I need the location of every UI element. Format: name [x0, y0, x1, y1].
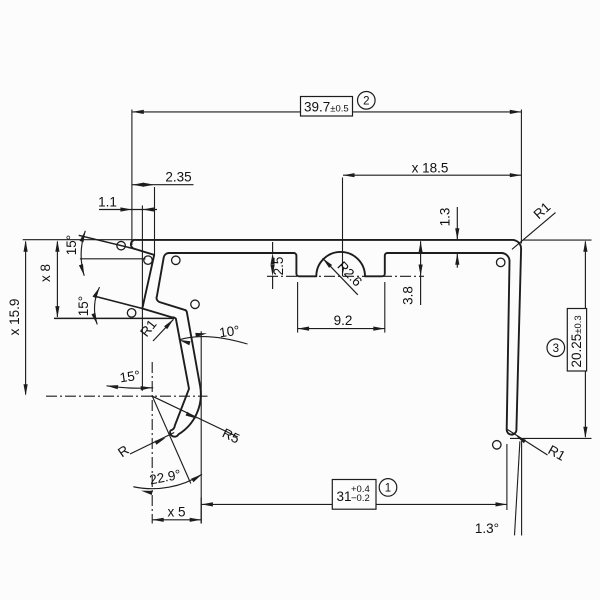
ext line x=154.5 (2.35 right): [154, 187, 156, 255]
svg-text:x 8: x 8: [38, 264, 53, 282]
ref line y=259 left: [80, 258, 146, 260]
svg-text:x 15.9: x 15.9: [7, 299, 22, 336]
svg-text:2.35: 2.35: [165, 170, 191, 185]
dimension R1 top-right leader: [512, 213, 556, 250]
svg-text:9.2: 9.2: [334, 313, 353, 328]
svg-text:3: 3: [553, 343, 559, 355]
dimension 2.5: [272, 242, 274, 253]
ext line x=201.2 (hook tangent / x5 / 10deg): [200, 331, 202, 523]
dimension x 8: [56, 242, 58, 318]
dimension R1 bottom-right leader: [508, 430, 548, 456]
svg-text:1: 1: [385, 483, 391, 495]
svg-text:2: 2: [363, 96, 369, 108]
ext line x=521.4 (39.7/18.5 right): [520, 110, 522, 244]
ext line x=342.5 (18.5 left): [342, 178, 344, 277]
svg-text:−0.2: −0.2: [351, 493, 370, 504]
svg-text:31: 31: [337, 489, 352, 504]
ray to hook tip (22.9deg): [152, 396, 191, 483]
centerline arch base y=276: [267, 275, 424, 277]
dimension 1.1: [99, 209, 157, 211]
marker circle 7: [493, 441, 502, 450]
ext line x=507 (31 right): [506, 444, 508, 510]
ref line bottom-right y=438.4: [510, 437, 592, 439]
centerline horizontal through hook center: [46, 395, 208, 397]
ref line top-left horizontal y=240: [23, 239, 136, 241]
dimension 31 +0.4/-0.2 with balloon 1: [201, 503, 332, 505]
dimension x 18.5: [343, 174, 521, 176]
angle dimension 15deg mid-left: [94, 287, 99, 324]
angle dimension 15deg lower (hook): [107, 386, 154, 388]
marker circle 2: [144, 256, 153, 265]
dimension x 5: [200, 498, 202, 524]
svg-text:3.8: 3.8: [400, 286, 415, 305]
angle dimension 10deg: [179, 337, 248, 344]
ext line 9.2 right: [384, 282, 386, 333]
dimension 39.7 +/-0.5 with balloon 2: [132, 111, 300, 113]
1.3deg slanted wall extension line: [515, 441, 520, 535]
angle dimension 22.9deg: [133, 474, 202, 488]
svg-text:15°: 15°: [76, 296, 91, 316]
ext line 9.2 left: [297, 282, 299, 333]
dimension R1 jaw leader: [153, 319, 174, 341]
dimension 9.2: [298, 328, 385, 330]
dimension R2.6 leader: [323, 258, 358, 295]
dimension 3.8: [420, 241, 422, 305]
marker circle 5: [127, 309, 136, 318]
svg-text:15°: 15°: [64, 235, 79, 255]
marker circle 4: [191, 300, 200, 309]
centerline vertical through hook center: [151, 362, 153, 524]
svg-text:2.5: 2.5: [271, 257, 286, 276]
svg-text:1.3: 1.3: [438, 208, 453, 227]
dimension 1.3 top wall: [456, 207, 458, 239]
dimension x 15.9: [25, 242, 27, 395]
dimension R leader: [130, 433, 174, 455]
1.3deg vertical reference line: [521, 441, 523, 536]
svg-text:1.3°: 1.3°: [475, 521, 499, 536]
marker circle 1: [117, 241, 126, 250]
ext line x=132 (39.7/2.35/1.1 left): [131, 110, 133, 246]
lip line 15deg lower-left: [96, 297, 143, 309]
dimension 20.25 +/-0.3 with balloon 3: [584, 242, 586, 309]
lip line 15deg upper-left: [79, 235, 133, 248]
ref line top-right y=240: [523, 239, 592, 241]
marker circle 3: [172, 256, 181, 265]
svg-text:15°: 15°: [119, 368, 141, 386]
marker circle 6: [496, 258, 505, 267]
ref line y=318.4 left: [54, 317, 174, 319]
dimension R5 leader: [152, 396, 238, 437]
dimension 2.35: [132, 184, 193, 186]
svg-text:x 5: x 5: [167, 505, 185, 520]
profile outer/inner outline: [131, 240, 521, 437]
ext line x=142.4 (1.1 right / 15deg ref): [141, 206, 143, 391]
svg-text:10°: 10°: [218, 323, 240, 341]
svg-text:1.1: 1.1: [98, 194, 117, 209]
svg-text:x 18.5: x 18.5: [412, 160, 449, 175]
angle dimension 15deg upper-left: [81, 231, 85, 276]
